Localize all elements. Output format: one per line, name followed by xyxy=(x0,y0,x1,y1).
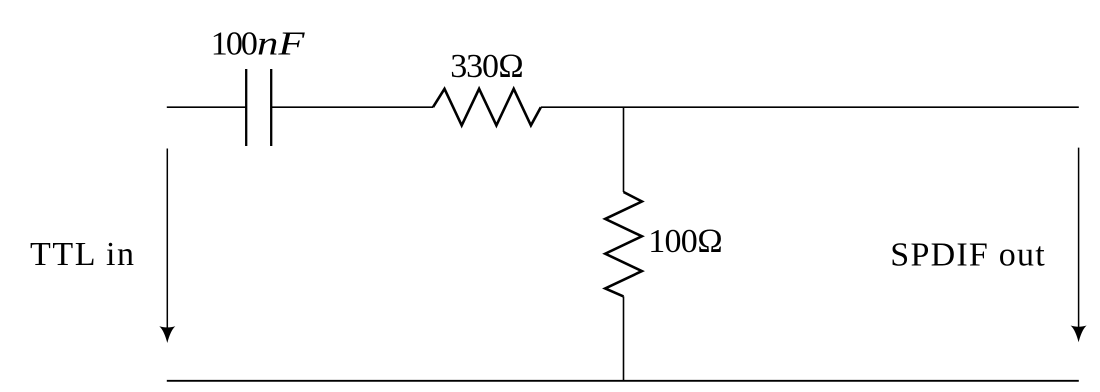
wire top-right segment xyxy=(541,106,1079,108)
wire capacitor to resistor xyxy=(271,106,433,108)
svg-text:330Ω: 330Ω xyxy=(450,48,524,85)
wire vertical lower segment xyxy=(623,296,625,380)
svg-text:nF: nF xyxy=(257,26,306,63)
wire top-left segment xyxy=(167,106,246,108)
port arrow TTL in xyxy=(159,149,175,344)
svg-text:SPDIF out: SPDIF out xyxy=(890,236,1045,273)
wire bottom xyxy=(167,380,1079,382)
port arrow SPDIF out xyxy=(1071,148,1087,343)
capacitor C1 xyxy=(246,69,271,146)
svg-text:TTL in: TTL in xyxy=(30,236,134,273)
resistor R1 xyxy=(433,89,541,126)
resistor R2 xyxy=(605,192,642,296)
wire vertical upper segment xyxy=(623,107,625,192)
svg-text:100: 100 xyxy=(211,26,258,63)
svg-text:100Ω: 100Ω xyxy=(648,223,723,260)
